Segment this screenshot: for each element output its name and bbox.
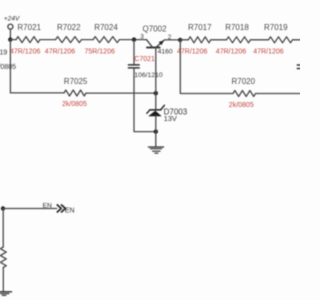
- node junction right: [178, 38, 182, 42]
- node junction left: [8, 37, 12, 41]
- svg-text:+24V: +24V: [4, 16, 20, 23]
- svg-text:R7020: R7020: [232, 77, 256, 86]
- transistor Q7002: [140, 24, 173, 55]
- wire base vertical: [155, 48, 157, 109]
- resistor R7017: [188, 37, 211, 43]
- resistor R7021: [16, 37, 40, 43]
- svg-text:R7025: R7025: [64, 77, 88, 86]
- wire R7017 to R7018: [211, 39, 227, 41]
- wire R7019 to right edge: [293, 39, 301, 41]
- svg-text:2k/0805: 2k/0805: [62, 101, 87, 108]
- node EN junction: [1, 206, 5, 210]
- svg-text:4160: 4160: [158, 49, 173, 56]
- wire EN node down: [2, 209, 4, 248]
- ground under zener: [148, 147, 163, 153]
- connector chevrons EN: [57, 205, 65, 212]
- wire R7021 to R7022: [40, 39, 56, 41]
- wire R7024 to transistor: [120, 39, 147, 41]
- wire cap bottom to ground rail: [134, 69, 156, 132]
- svg-text:106/1210: 106/1210: [134, 72, 163, 79]
- svg-text:47R/1206: 47R/1206: [177, 48, 207, 55]
- node junction bottom: [154, 129, 158, 133]
- wire left vertical to R7025: [10, 40, 64, 93]
- resistor R7024: [93, 37, 120, 43]
- svg-text:13V: 13V: [164, 114, 177, 123]
- wire R7018 to R7019: [251, 39, 269, 41]
- resistor R7020: [233, 91, 256, 97]
- wire node to R7017: [180, 39, 188, 41]
- wire right node down to R7020: [180, 40, 233, 94]
- svg-text:Q7002: Q7002: [143, 24, 168, 33]
- svg-text:EN: EN: [65, 208, 75, 215]
- wire R7025 to zener net: [86, 92, 156, 94]
- svg-text:47R/1206: 47R/1206: [10, 48, 40, 55]
- svg-text:47R/1206: 47R/1206: [253, 48, 283, 55]
- resistor R7019: [269, 37, 293, 43]
- svg-text:3: 3: [140, 34, 144, 41]
- wire R7022 to R7024: [82, 39, 94, 41]
- capacitor fragment right edge: [297, 65, 300, 69]
- svg-text:C7021: C7021: [134, 56, 155, 63]
- wire zener to ground: [155, 116, 157, 146]
- svg-text:R7019: R7019: [264, 23, 288, 32]
- node junction R7025/zener: [154, 91, 158, 95]
- svg-text:R7017: R7017: [188, 23, 212, 32]
- wire cap vertical: [133, 40, 135, 65]
- svg-text:47R/1206: 47R/1206: [216, 48, 246, 55]
- resistor R7022: [56, 37, 82, 43]
- svg-text:R7024: R7024: [94, 23, 118, 32]
- svg-text:47R/1206: 47R/1206: [45, 48, 75, 55]
- svg-text:R7018: R7018: [225, 23, 249, 32]
- resistor R7018: [227, 37, 251, 43]
- terminal +24V: [8, 24, 13, 29]
- wire resistor to ground: [2, 267, 4, 291]
- ground bottom left: [0, 292, 12, 296]
- svg-text:/0805: /0805: [0, 64, 16, 71]
- capacitor C7021: [128, 56, 162, 79]
- wire EN: [3, 208, 57, 210]
- svg-text:19: 19: [0, 49, 7, 56]
- svg-text:2k/0805: 2k/0805: [229, 102, 254, 109]
- resistor pulldown vertical: [0, 247, 6, 267]
- wire emitter to node: [164, 39, 180, 41]
- svg-text:R7021: R7021: [17, 23, 41, 32]
- node junction capacitor top: [132, 37, 136, 41]
- wire terminal to node: [9, 29, 11, 39]
- svg-text:EN: EN: [43, 202, 53, 209]
- resistor R7025: [64, 90, 86, 96]
- wire node to R7021: [10, 39, 16, 41]
- wire R7020 to right edge: [256, 93, 300, 95]
- zener diode D7003: [147, 105, 188, 123]
- svg-text:R7022: R7022: [57, 23, 81, 32]
- svg-text:75R/1206: 75R/1206: [85, 48, 115, 55]
